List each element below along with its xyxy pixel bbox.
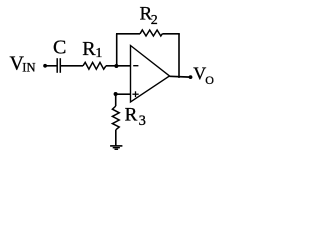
label R3 — [125, 104, 146, 129]
wire capacitor to R1 — [61, 65, 83, 67]
op-amp U1 triangle — [131, 46, 170, 103]
svg-text:R: R — [82, 38, 96, 60]
svg-text:3: 3 — [139, 113, 146, 129]
node B junction dot (non-inverting node) — [114, 92, 118, 96]
svg-text:O: O — [205, 73, 214, 87]
label VIN — [10, 52, 36, 74]
wire feedback top right segment — [162, 33, 180, 35]
svg-text:2: 2 — [151, 13, 158, 28]
label VO — [193, 64, 214, 87]
svg-text:1: 1 — [95, 46, 102, 61]
ground — [110, 146, 122, 149]
op-amp plus sign — [132, 91, 138, 97]
label R1 — [82, 38, 102, 61]
wire R3 to ground — [115, 130, 117, 146]
resistor R3 zigzag — [112, 106, 119, 130]
node output terminal dot — [189, 75, 193, 79]
resistor R1 zigzag — [83, 62, 106, 69]
wire op-amp output — [170, 75, 191, 78]
wire to non-inverting input — [116, 93, 131, 95]
resistor R2 zigzag — [140, 30, 162, 36]
wire feedback left vertical — [116, 34, 118, 66]
wire VIN dot to capacitor — [45, 65, 57, 67]
wire feedback top left segment — [116, 33, 140, 35]
svg-text:IN: IN — [22, 61, 35, 75]
svg-text:V: V — [193, 64, 206, 84]
wire feedback right vertical — [178, 34, 180, 78]
svg-text:R: R — [125, 104, 138, 125]
label R2 — [140, 3, 158, 27]
capacitor C plates — [57, 58, 60, 73]
node A junction dot (inverting input node) — [114, 64, 118, 68]
wire R1 to op-amp inverting input — [106, 65, 131, 67]
svg-text:C: C — [53, 37, 66, 59]
node VIN terminal dot — [43, 64, 47, 68]
wire node B down to R3 — [115, 94, 117, 106]
op-amp minus sign — [133, 65, 138, 67]
